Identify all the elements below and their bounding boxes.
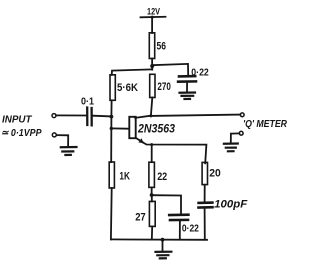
wire R27 bottom to bus [151, 227, 153, 240]
node ground stem [161, 238, 165, 242]
wire emitter to R20 branch [143, 142, 207, 163]
wire base (node to transistor) [111, 127, 129, 129]
wire R270 bottom to collector node [151, 98, 152, 116]
wire C0.22 bottom to bus [179, 220, 181, 239]
wire C100pF to bus [204, 208, 206, 240]
wire ground bus [111, 238, 207, 240]
svg-text:0·22: 0·22 [191, 67, 209, 79]
wire R20 bottom to C100pF [204, 185, 206, 202]
transistor Q1 2N3563 [129, 117, 175, 138]
capacitor 0.1 (input coupling) [81, 97, 94, 126]
node B (input/bias junction) [110, 115, 114, 119]
svg-text:270: 270 [157, 81, 171, 93]
wire 12V rail to R56 top [151, 17, 153, 33]
svg-text:20: 20 [209, 168, 221, 180]
resistor 27 [135, 201, 155, 226]
resistor 20 [202, 162, 221, 184]
resistor 1K [109, 162, 130, 188]
node C (emitter RC junction) [150, 193, 154, 197]
terminal Q meter ground [239, 131, 243, 135]
svg-text:2N3563: 2N3563 [137, 123, 175, 135]
svg-text:0·1: 0·1 [81, 97, 94, 108]
wire ground stem [162, 240, 164, 252]
wire bias divider vertical (node B to R1K) [110, 117, 112, 163]
svg-text:5·6K: 5·6K [117, 82, 138, 94]
wire R1K top lead [110, 161, 112, 163]
capacitor 0.22 (emitter bypass) [169, 215, 199, 235]
resistor 5.6K [110, 75, 138, 101]
ground (input) [61, 147, 77, 155]
node base tap [110, 127, 113, 130]
wire C0.22 to ground [186, 82, 188, 92]
node A (supply divider junction) [150, 64, 154, 68]
wire R56 bottom to node A [151, 59, 153, 70]
capacitor 100pF [199, 199, 248, 211]
wire input ground terminal to ground [57, 135, 69, 147]
wire R5.6K bottom to node B [110, 100, 112, 116]
wire input terminal to C0.1 [56, 114, 86, 116]
wire R22 bottom to node C [151, 187, 153, 194]
svg-text:0·22: 0·22 [182, 223, 199, 235]
wire collector to Q meter terminal [151, 115, 240, 116]
svg-text:1K: 1K [119, 171, 130, 183]
wire node A to C 0.22 top [152, 64, 188, 76]
terminal Q meter hot [240, 113, 244, 117]
emitter arrowhead [138, 138, 143, 143]
svg-text:22: 22 [157, 171, 167, 183]
node collector [149, 114, 152, 117]
svg-text:12V: 12V [147, 7, 161, 18]
wire collector lead [135, 116, 151, 118]
wire emitter node to R22 [151, 145, 153, 163]
wire R1K bottom to bus [110, 188, 113, 239]
wire C0.1 to node B [93, 115, 112, 118]
terminal input hot [52, 114, 56, 118]
wire node C to C0.22 bottom [152, 195, 181, 214]
svg-text:100pF: 100pF [214, 199, 247, 211]
ground (Q meter) [224, 144, 238, 152]
svg-text:≃ 0·1VPP: ≃ 0·1VPP [1, 127, 42, 139]
svg-text:56: 56 [157, 41, 167, 53]
wire Q meter ground terminal to ground [231, 133, 240, 143]
node 12V supply rail [141, 16, 166, 19]
capacitor 0.22 (top bypass) [178, 67, 209, 82]
wire node A to R5.6K top [112, 69, 153, 75]
resistor 56 [149, 33, 166, 59]
resistor 22 [149, 162, 167, 187]
terminal input ground [52, 133, 56, 137]
wire emitter lead with arrow [136, 138, 143, 142]
resistor 270 [150, 74, 171, 97]
svg-text:'Q' METER: 'Q' METER [243, 119, 288, 130]
node emitter junction [150, 143, 153, 146]
svg-text:INPUT: INPUT [2, 114, 33, 126]
wire node C to R27 [151, 195, 153, 201]
ground (top right, below 0.22) [180, 93, 196, 100]
svg-text:27: 27 [135, 212, 146, 224]
ground (main) [156, 252, 172, 259]
